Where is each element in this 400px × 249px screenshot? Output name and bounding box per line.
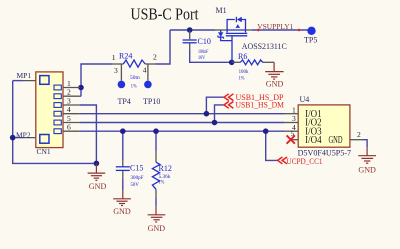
svg-text:UCPD_CC1: UCPD_CC1 xyxy=(287,157,323,166)
svg-text:C15: C15 xyxy=(130,164,143,173)
svg-text:50V: 50V xyxy=(131,182,139,188)
svg-text:3: 3 xyxy=(114,66,118,75)
svg-text:CN1: CN1 xyxy=(37,147,51,156)
svg-text:1%: 1% xyxy=(131,83,137,89)
svg-text:I/O4: I/O4 xyxy=(305,135,322,146)
svg-text:6: 6 xyxy=(67,123,71,132)
svg-text:3: 3 xyxy=(292,114,296,123)
svg-text:3: 3 xyxy=(67,97,71,106)
svg-text:USB-C Port: USB-C Port xyxy=(131,5,199,24)
svg-text:GND: GND xyxy=(266,80,284,89)
svg-text:TP5: TP5 xyxy=(304,36,317,45)
svg-text:GND: GND xyxy=(329,135,343,146)
svg-text:5: 5 xyxy=(67,114,71,123)
svg-text:VSUPPLY1: VSUPPLY1 xyxy=(257,22,293,31)
svg-text:1%: 1% xyxy=(159,179,165,185)
svg-text:2: 2 xyxy=(67,88,71,97)
svg-text:100k: 100k xyxy=(239,69,249,75)
svg-text:1: 1 xyxy=(292,105,296,114)
svg-text:4: 4 xyxy=(143,66,147,75)
svg-text:USB1_HS_DM: USB1_HS_DM xyxy=(236,101,285,110)
svg-text:TP4: TP4 xyxy=(118,97,131,106)
svg-text:MP2: MP2 xyxy=(16,130,31,139)
svg-text:R12: R12 xyxy=(159,164,172,173)
svg-text:1%: 1% xyxy=(239,75,245,81)
svg-text:GND: GND xyxy=(113,207,131,216)
svg-text:GND: GND xyxy=(89,182,107,191)
svg-text:2: 2 xyxy=(153,53,157,62)
svg-text:1: 1 xyxy=(112,53,116,62)
svg-text:100nF: 100nF xyxy=(198,49,208,55)
svg-text:50m: 50m xyxy=(130,75,140,81)
svg-text:MP1: MP1 xyxy=(17,71,32,80)
svg-text:GND: GND xyxy=(148,224,166,233)
svg-text:U4: U4 xyxy=(300,95,310,104)
svg-text:4: 4 xyxy=(67,105,71,114)
svg-text:AOSS21311C: AOSS21311C xyxy=(242,41,287,51)
svg-text:R24: R24 xyxy=(119,52,132,61)
svg-text:M1: M1 xyxy=(216,6,227,15)
svg-text:R6: R6 xyxy=(238,52,247,61)
svg-text:2: 2 xyxy=(357,130,361,139)
svg-text:1: 1 xyxy=(67,79,71,88)
svg-text:16V: 16V xyxy=(198,55,205,61)
svg-text:D5V0F4U5P5-7: D5V0F4U5P5-7 xyxy=(298,148,352,158)
svg-text:5: 5 xyxy=(291,129,295,138)
svg-text:C10: C10 xyxy=(198,37,211,46)
svg-text:GND: GND xyxy=(358,166,376,175)
svg-text:300pF: 300pF xyxy=(131,175,144,181)
svg-text:TP10: TP10 xyxy=(143,97,160,106)
